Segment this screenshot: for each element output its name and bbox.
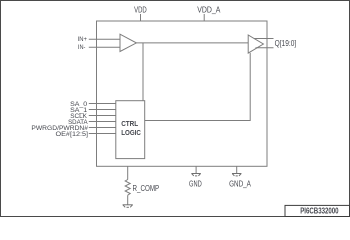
wire PWRGD/PWRDN# <box>89 127 116 129</box>
svg-text:OE#[12:5]: OE#[12:5] <box>56 131 89 138</box>
wire output Q lower <box>256 47 274 49</box>
svg-text:CTRL: CTRL <box>121 119 138 128</box>
svg-text:IN+: IN+ <box>78 36 87 43</box>
block CTRL LOGIC <box>116 101 145 159</box>
ground GND <box>191 174 200 176</box>
svg-text:IN-: IN- <box>78 44 86 51</box>
svg-text:LOGIC: LOGIC <box>121 128 141 137</box>
wire SA_1 <box>89 109 116 111</box>
ground under R_COMP <box>123 205 133 208</box>
wire SDATA <box>89 121 116 123</box>
svg-text:GND_A: GND_A <box>229 178 251 188</box>
wire output Q upper <box>254 38 274 40</box>
wire input buffer to output buffer <box>136 42 248 44</box>
op-amp output buffer <box>248 35 263 53</box>
svg-text:VDD: VDD <box>134 5 147 15</box>
wire SA_0 <box>89 103 116 105</box>
wire SCLK <box>89 115 116 117</box>
svg-text:R_COMP: R_COMP <box>133 183 160 193</box>
pin GND stem <box>195 166 197 173</box>
main block outline <box>97 21 268 166</box>
wire IN+ <box>89 38 120 40</box>
resistor R_COMP <box>125 180 130 196</box>
pin VDD <box>140 14 142 21</box>
svg-text:PI6CB332000: PI6CB332000 <box>300 207 339 216</box>
wire OE#[12:5] <box>89 133 116 135</box>
wire junction down to ctrl logic <box>142 43 144 101</box>
pin GND_A stem <box>236 166 238 173</box>
part number box <box>285 205 350 216</box>
svg-text:Q[19:0]: Q[19:0] <box>275 38 297 48</box>
wire resistor to ground <box>127 195 129 205</box>
wire CTRL LOGIC to output buffer <box>145 53 251 121</box>
wire IN- <box>89 46 120 48</box>
ground GND_A <box>232 174 241 176</box>
svg-text:GND: GND <box>189 178 202 188</box>
svg-text:VDD_A: VDD_A <box>197 5 220 15</box>
pin R_COMP stem <box>127 166 129 179</box>
op-amp input buffer <box>120 34 136 51</box>
pin VDD_A <box>203 14 205 21</box>
